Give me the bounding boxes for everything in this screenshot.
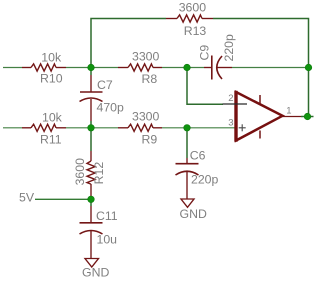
- svg-text:C7: C7: [97, 78, 113, 92]
- svg-text:10u: 10u: [97, 233, 118, 247]
- svg-text:R12: R12: [92, 162, 106, 185]
- svg-text:R13: R13: [184, 24, 207, 38]
- svg-text:GND: GND: [82, 266, 109, 280]
- svg-text:C9: C9: [198, 45, 212, 61]
- svg-text:3600: 3600: [73, 158, 87, 186]
- svg-text:3: 3: [228, 118, 233, 129]
- svg-text:3300: 3300: [132, 110, 160, 124]
- svg-text:3300: 3300: [132, 50, 160, 64]
- svg-text:3600: 3600: [179, 1, 207, 15]
- svg-text:R10: R10: [40, 72, 63, 86]
- svg-text:2: 2: [228, 93, 233, 104]
- svg-text:220p: 220p: [222, 34, 236, 62]
- svg-text:10k: 10k: [41, 51, 62, 65]
- svg-text:C6: C6: [190, 149, 206, 163]
- svg-text:GND: GND: [180, 207, 207, 221]
- svg-text:470p: 470p: [97, 101, 125, 115]
- svg-text:C11: C11: [96, 209, 118, 223]
- svg-text:R11: R11: [40, 132, 62, 146]
- svg-text:220p: 220p: [191, 173, 219, 187]
- svg-text:1: 1: [286, 106, 291, 117]
- svg-text:R9: R9: [142, 132, 158, 146]
- svg-text:5V: 5V: [19, 190, 35, 204]
- svg-text:R8: R8: [142, 72, 158, 86]
- svg-text:10k: 10k: [42, 110, 63, 124]
